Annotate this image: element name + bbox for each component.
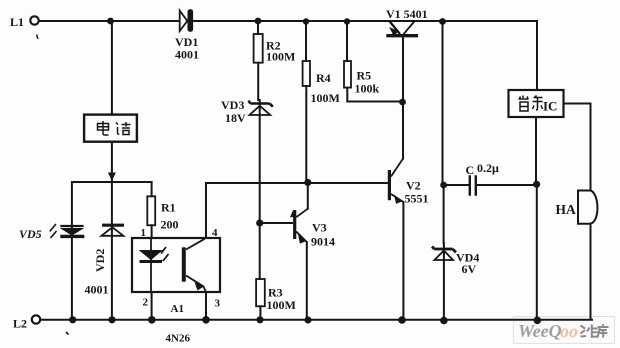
svg-text:3: 3	[215, 298, 221, 310]
svg-text:V2: V2	[406, 179, 421, 193]
svg-text:R5: R5	[357, 69, 372, 83]
svg-text:100k: 100k	[355, 82, 380, 96]
svg-text:WeeQ: WeeQ	[518, 321, 562, 341]
svg-text:R4: R4	[316, 71, 331, 85]
svg-text:4N26: 4N26	[166, 333, 191, 345]
svg-text:100M: 100M	[266, 50, 295, 64]
svg-text:4001: 4001	[85, 283, 109, 297]
svg-text:18V: 18V	[225, 111, 246, 125]
svg-text:A1: A1	[171, 303, 184, 315]
svg-text:L2: L2	[13, 317, 27, 331]
svg-text:HA: HA	[556, 202, 577, 217]
svg-text:1: 1	[141, 227, 147, 239]
svg-text:L1: L1	[10, 15, 24, 29]
svg-text:oo: oo	[560, 321, 578, 341]
svg-text:0.2μ: 0.2μ	[477, 161, 499, 175]
svg-text:9014: 9014	[311, 235, 335, 249]
svg-text:IC: IC	[543, 99, 557, 114]
svg-text:2: 2	[143, 297, 149, 309]
svg-text:4: 4	[212, 227, 218, 239]
svg-text:100M: 100M	[311, 91, 340, 105]
svg-text:VD2: VD2	[93, 249, 107, 272]
svg-text:200: 200	[161, 218, 179, 232]
svg-text:V3: V3	[312, 221, 327, 235]
svg-text:4001: 4001	[175, 48, 199, 62]
svg-text:VD5: VD5	[19, 227, 42, 241]
svg-text:C: C	[466, 163, 475, 177]
svg-text:100M: 100M	[267, 298, 296, 312]
svg-text:R1: R1	[161, 201, 176, 215]
svg-text:6V: 6V	[462, 262, 477, 276]
svg-text:5551: 5551	[405, 192, 429, 206]
svg-text:VD3: VD3	[221, 98, 244, 112]
svg-text:V1 5401: V1 5401	[386, 7, 428, 21]
